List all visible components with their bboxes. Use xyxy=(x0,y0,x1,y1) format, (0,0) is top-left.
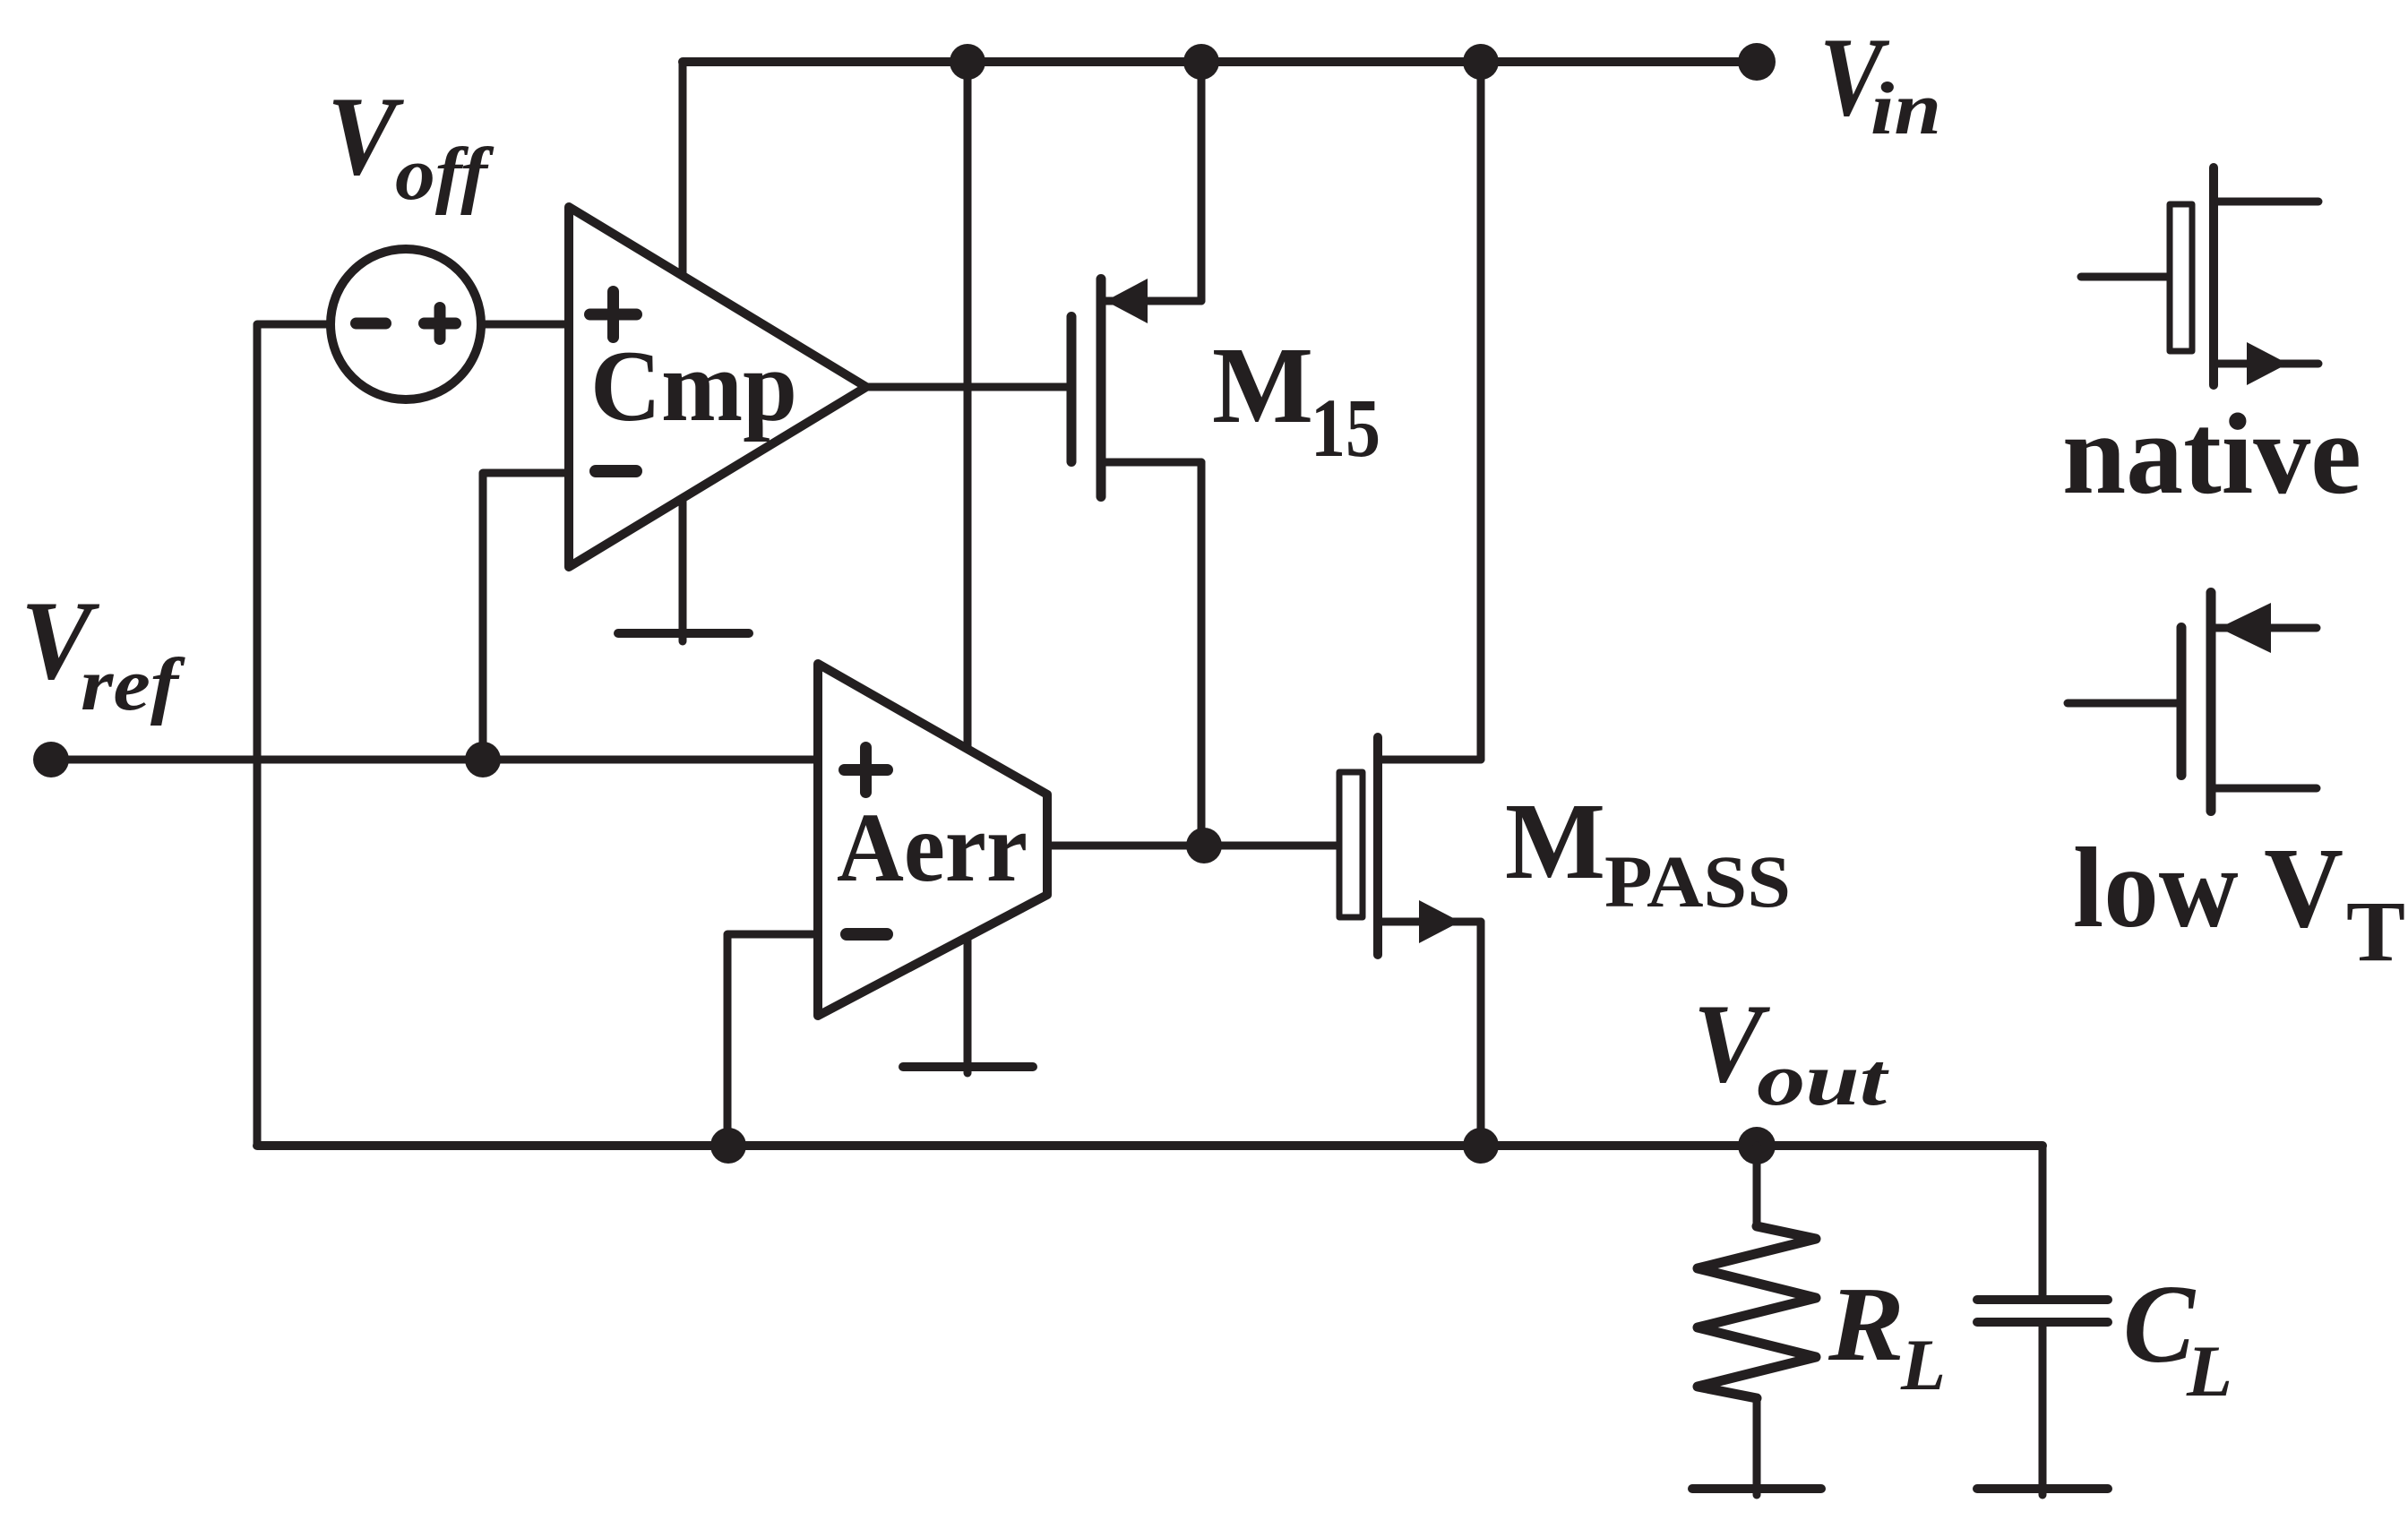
svg-text:15: 15 xyxy=(1311,382,1380,475)
amplifier Aerr trapezoid xyxy=(818,664,1047,1016)
transistor M15 channel xyxy=(1096,279,1106,497)
wire Vin top rail xyxy=(683,57,1757,66)
resistor RL zigzag xyxy=(1698,1226,1816,1398)
svg-text:native: native xyxy=(2062,390,2361,518)
wire bottom Vout rail xyxy=(257,1141,2042,1150)
ground Cmp xyxy=(618,498,749,641)
capacitor CL top lead xyxy=(2039,1146,2047,1300)
ground RL xyxy=(1692,1484,1821,1493)
voltage source V_off xyxy=(331,249,481,399)
transistor M15 drain arrow xyxy=(1105,279,1148,323)
node Vin terminal dot xyxy=(1738,43,1776,81)
legend lowVT transistor gate lead xyxy=(2068,700,2177,708)
wire Vref line xyxy=(51,756,818,764)
wire MPASS drain vertical xyxy=(1477,62,1485,760)
legend native transistor drain lead xyxy=(2218,198,2318,206)
node junction dot Vin-Aerr xyxy=(950,44,985,80)
wire MPASS source vertical xyxy=(1477,922,1485,1146)
wire M15 drain vertical xyxy=(1198,62,1206,301)
node junction dot Vin-M15 xyxy=(1183,44,1219,80)
svg-text:M: M xyxy=(1505,781,1605,902)
transistor M15 source lead xyxy=(1105,459,1201,467)
svg-text:L: L xyxy=(1900,1324,1946,1405)
V_off plus sign xyxy=(425,308,456,339)
svg-text:PASS: PASS xyxy=(1604,840,1791,923)
V_off minus sign xyxy=(357,318,386,330)
legend lowVT transistor drain lead xyxy=(2215,624,2317,632)
svg-text:Aerr: Aerr xyxy=(837,793,1028,902)
op-amp Cmp triangle xyxy=(569,207,866,567)
svg-text:L: L xyxy=(2186,1330,2232,1412)
node junction dot Vref-CmpMinus xyxy=(465,742,501,777)
label V_ref xyxy=(21,579,185,726)
label V_off xyxy=(327,74,494,216)
resistor RL top lead xyxy=(1753,1146,1761,1226)
wire M15 source vertical xyxy=(1198,462,1206,846)
legend lowVT transistor channel xyxy=(2206,593,2216,812)
transistor MPASS source arrow xyxy=(1419,900,1460,943)
capacitor CL bottom lead xyxy=(2039,1322,2047,1495)
label MPASS xyxy=(1505,781,1791,923)
label CL xyxy=(2123,1263,2232,1412)
legend lowVT transistor source lead xyxy=(2215,785,2317,793)
transistor M15 gate bar xyxy=(1067,317,1077,462)
transistor MPASS source lead xyxy=(1382,918,1481,926)
legend native transistor source arrow xyxy=(2247,342,2288,385)
Aerr minus sign xyxy=(847,928,887,941)
capacitor CL bottom plate xyxy=(1977,1318,2108,1327)
resistor RL bottom lead xyxy=(1753,1398,1761,1495)
svg-text:off: off xyxy=(395,133,494,216)
node junction dot Vout-AerrMinus xyxy=(710,1128,746,1164)
transistor MPASS channel xyxy=(1373,737,1382,955)
transistor MPASS drain lead xyxy=(1382,756,1481,764)
transistor MPASS gate rectangle xyxy=(1339,772,1363,917)
wire Aerr minus input xyxy=(727,934,818,1146)
node Vout junction dot xyxy=(1738,1127,1776,1164)
label V_out xyxy=(1693,982,1889,1121)
label RL xyxy=(1827,1265,1946,1405)
wire Aerr output to MPASS gate xyxy=(1047,842,1339,850)
Cmp plus sign xyxy=(590,292,637,338)
wire V_off to Cmp plus xyxy=(481,321,569,329)
svg-text:ref: ref xyxy=(81,643,185,726)
legend native transistor gate lead xyxy=(2081,273,2170,281)
node junction dot Vout-MPASS xyxy=(1463,1128,1499,1164)
svg-text:Cmp: Cmp xyxy=(590,331,797,442)
transistor M15 drain lead xyxy=(1105,297,1201,305)
Aerr plus sign xyxy=(845,748,888,793)
label V_in xyxy=(1819,15,1941,150)
ground Aerr xyxy=(903,937,1033,1073)
label low VT xyxy=(2073,824,2405,979)
svg-text:C: C xyxy=(2123,1263,2197,1387)
svg-text:R: R xyxy=(1827,1265,1905,1383)
svg-text:in: in xyxy=(1870,67,1941,150)
svg-text:T: T xyxy=(2346,883,2405,979)
label M15 xyxy=(1212,325,1380,475)
wire V_off left feedback xyxy=(257,324,331,1146)
capacitor CL top plate xyxy=(1977,1295,2108,1304)
node Vref terminal dot xyxy=(33,742,69,777)
node junction dot Aerr-M15-MPASS xyxy=(1186,828,1222,863)
wire Cmp minus input xyxy=(483,473,569,760)
node junction dot Vin-MPASS xyxy=(1463,44,1499,80)
legend lowVT transistor gate bar xyxy=(2177,628,2187,776)
Cmp minus sign xyxy=(596,465,636,477)
svg-text:V: V xyxy=(327,74,404,199)
wire Cmp power drop xyxy=(679,62,687,276)
legend native transistor source lead xyxy=(2218,360,2318,368)
legend lowVT transistor drain arrow xyxy=(2219,603,2271,653)
svg-text:low V: low V xyxy=(2073,824,2343,951)
svg-text:out: out xyxy=(1757,1038,1889,1121)
ground CL xyxy=(1977,1484,2108,1493)
wire Cmp output to M15 gate xyxy=(866,383,1067,391)
wire Aerr power drop xyxy=(964,62,972,749)
legend native transistor channel xyxy=(2209,168,2218,385)
svg-text:M: M xyxy=(1212,325,1313,446)
legend native transistor gate rectangle xyxy=(2170,204,2192,351)
